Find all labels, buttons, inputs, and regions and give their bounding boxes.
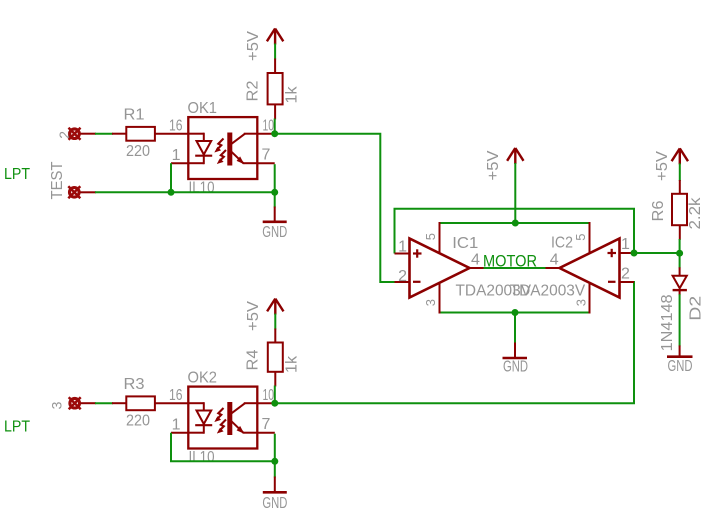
svg-text:IL10: IL10 (189, 179, 215, 196)
OK1 light arrow 2 (217, 150, 226, 164)
svg-text:D2: D2 (688, 296, 705, 321)
IC2 pin 1 stub (620, 252, 635, 254)
svg-text:LPT: LPT (4, 166, 30, 183)
svg-text:3: 3 (49, 401, 65, 409)
svg-text:IL10: IL10 (189, 449, 215, 466)
resistor R3 (126, 396, 155, 410)
svg-text:5: 5 (423, 233, 438, 240)
pin 2 stub (81, 133, 97, 135)
wire to GND (274, 192, 276, 207)
diode D2 (673, 276, 687, 290)
wire pin3 to R3 (95, 402, 113, 404)
pin 7 stub (257, 162, 274, 164)
resistor R1 (126, 127, 155, 141)
wire pin7 down (274, 164, 276, 192)
IC2 plus sign (608, 249, 617, 257)
wire +5V to R4 (274, 314, 276, 330)
wire pin1 down (170, 163, 172, 192)
svg-text:1N4148: 1N4148 (659, 294, 676, 351)
OK2 light arrow 2 (217, 420, 226, 434)
wire TEST horizontal (95, 191, 275, 193)
OK1 LED diode (195, 141, 212, 156)
IC1 pin 2 stub (395, 281, 410, 283)
svg-text:1: 1 (621, 236, 630, 253)
resistor R6 (672, 194, 687, 225)
IC1 plus sign (413, 249, 422, 257)
svg-text:+5V: +5V (654, 151, 671, 181)
D2 cathode stub (679, 290, 681, 295)
svg-text:R6: R6 (650, 200, 667, 221)
power +5V symbol (R4) (267, 299, 283, 315)
svg-text:GND: GND (262, 495, 287, 512)
SECTION: right R6/D2 (650, 148, 705, 375)
svg-text:+5V: +5V (485, 150, 502, 180)
svg-text:7: 7 (262, 147, 271, 164)
wire +input rail (top) (395, 209, 635, 254)
wire +5V to R2 (274, 44, 276, 60)
SECTION: top-left optocoupler channel (4, 29, 395, 283)
wire GND rail (inner bottom) (440, 312, 590, 314)
svg-text:MOTOR: MOTOR (483, 252, 537, 271)
OK2 LED diode (195, 411, 212, 426)
svg-text:GND: GND (503, 359, 528, 376)
wire +5V down to VS rail (514, 163, 516, 223)
IC2 pin 2 stub (620, 281, 635, 283)
svg-text:OK1: OK1 (188, 100, 218, 117)
wire MOTOR net between outputs (484, 267, 546, 269)
resistor R3 left stub (112, 402, 126, 404)
svg-text:3: 3 (574, 299, 589, 306)
svg-text:LPT: LPT (4, 419, 30, 436)
pin 1 stub (171, 162, 188, 164)
IC1 pin 1 stub (395, 253, 410, 255)
IC2 minus sign (608, 281, 616, 283)
IC2 pin 5 stub (589, 222, 591, 254)
IC2 pin 3 stub (589, 283, 591, 314)
R2 bottom stub (274, 104, 276, 119)
connector pin X (LPT pin 2) (69, 128, 81, 140)
connector pin X (LPT pin 3) (69, 397, 81, 409)
svg-text:GND: GND (668, 358, 693, 375)
OK1 phototransistor (227, 133, 257, 166)
junction pin7/GND (OK2) (271, 458, 278, 465)
wire R2 to pin10 junction (274, 119, 276, 134)
svg-text:OK2: OK2 (188, 370, 218, 387)
svg-text:TEST: TEST (49, 161, 66, 199)
wire GND rail down (514, 313, 516, 344)
svg-text:GND: GND (262, 224, 287, 241)
SECTION: bottom-left optocoupler channel (4, 282, 634, 512)
svg-text:2.2k: 2.2k (687, 196, 704, 229)
pin 7 stub (OK2) (257, 432, 275, 434)
wire R1 to OK1 pin16 (155, 133, 188, 135)
svg-text:5: 5 (573, 234, 588, 241)
junction GND rail (512, 309, 519, 316)
svg-text:+5V: +5V (245, 31, 262, 61)
wire R3 to OK2 pin16 (155, 402, 188, 404)
svg-text:2: 2 (621, 266, 630, 283)
pin 10 stub (257, 133, 274, 135)
R4 bottom stub (274, 372, 276, 387)
ground GND (OK1) (262, 207, 287, 242)
op-amp IC2 triangle (560, 239, 620, 298)
IC1 pin 3 stub (439, 283, 441, 314)
pin 3 stub (81, 402, 96, 404)
svg-text:TDA2003V: TDA2003V (510, 283, 586, 300)
ground GND (OK2) (262, 477, 287, 513)
junction pin10 (OK2) (271, 400, 278, 407)
wire VS rail (inner top) (440, 222, 590, 224)
svg-text:220: 220 (126, 412, 150, 429)
connector pin X (TEST) (68, 186, 80, 198)
OK1 internal LED wiring (188, 133, 204, 165)
optocoupler OK2 box (188, 387, 257, 449)
SECTION: middle motor driver (395, 148, 680, 376)
pin 1 stub (OK2) (171, 432, 188, 434)
wire pin1 down and right (OK2) (171, 433, 275, 462)
svg-text:1: 1 (172, 147, 181, 164)
power +5V symbol (middle) (507, 148, 523, 164)
junction IC2 pin1 (631, 250, 638, 257)
optocoupler OK1 box (188, 117, 257, 179)
svg-text:220: 220 (126, 143, 150, 160)
svg-text:1k: 1k (284, 355, 301, 373)
wire +5V to R6 (679, 163, 681, 181)
op-amp IC1 triangle (410, 239, 470, 298)
svg-text:1k: 1k (284, 86, 301, 104)
OK1 light arrow 1 (214, 139, 223, 153)
D2 anode stub (679, 267, 681, 276)
resistor R4 (268, 343, 283, 372)
OK2 phototransistor (227, 402, 257, 435)
svg-text:+5V: +5V (245, 301, 262, 331)
R2 top stub (274, 59, 276, 74)
svg-text:7: 7 (262, 416, 271, 433)
svg-text:R4: R4 (245, 349, 262, 370)
R6 bottom stub (679, 225, 681, 240)
OK2 internal LED wiring (188, 402, 204, 434)
svg-text:IC2: IC2 (551, 235, 573, 252)
R4 top stub (274, 329, 276, 343)
junction pin7/GND (271, 189, 278, 196)
wire pin10 to IC1 pin2 (right and down) (275, 134, 395, 282)
svg-text:1: 1 (172, 417, 181, 434)
power +5V symbol (R6) (672, 148, 688, 164)
svg-text:1: 1 (398, 239, 407, 256)
svg-text:R3: R3 (124, 376, 145, 393)
svg-text:16: 16 (169, 118, 183, 135)
junction TEST/pin1 (168, 189, 175, 196)
junction VS rail (512, 220, 519, 227)
ground GND (middle) (503, 343, 529, 376)
svg-text:2: 2 (398, 268, 407, 285)
svg-text:IC1: IC1 (452, 235, 478, 252)
wire R6 to node (679, 239, 681, 253)
resistor R2 (268, 73, 283, 104)
pin 10 stub (OK2) (257, 402, 275, 404)
svg-text:R1: R1 (124, 107, 145, 124)
resistor R1 left stub (112, 133, 126, 135)
wire node to D2 (679, 253, 681, 268)
wire pin2 to R1 (95, 133, 113, 135)
svg-text:3: 3 (423, 299, 438, 306)
wire pin7 down (OK2) (274, 434, 276, 462)
svg-text:4: 4 (471, 252, 480, 269)
wire R4 to pin10 junction (OK2) (274, 386, 276, 404)
svg-text:16: 16 (169, 387, 183, 404)
TEST pin stub (80, 191, 96, 193)
IC1 pin 5 stub (439, 222, 441, 254)
IC1 minus sign (413, 281, 421, 283)
ground GND (D2) (667, 345, 693, 375)
wire D2 to GND (679, 294, 681, 346)
svg-text:4: 4 (550, 252, 559, 269)
IC1 pin 4 stub (470, 267, 485, 269)
wire IC2 pin1 to R6/D2 node (634, 252, 680, 254)
wire to GND (OK2) (274, 461, 276, 477)
junction R6/D2 node (676, 250, 683, 257)
R6 top stub (679, 180, 681, 194)
OK2 light arrow 1 (214, 408, 223, 422)
wire pin10 (OK2) to IC2 pin2 (right and up) (275, 282, 634, 403)
svg-text:R2: R2 (245, 80, 262, 101)
power +5V symbol (R2) (267, 29, 283, 45)
junction pin10 (271, 130, 278, 137)
IC2 pin 4 stub (545, 267, 560, 269)
